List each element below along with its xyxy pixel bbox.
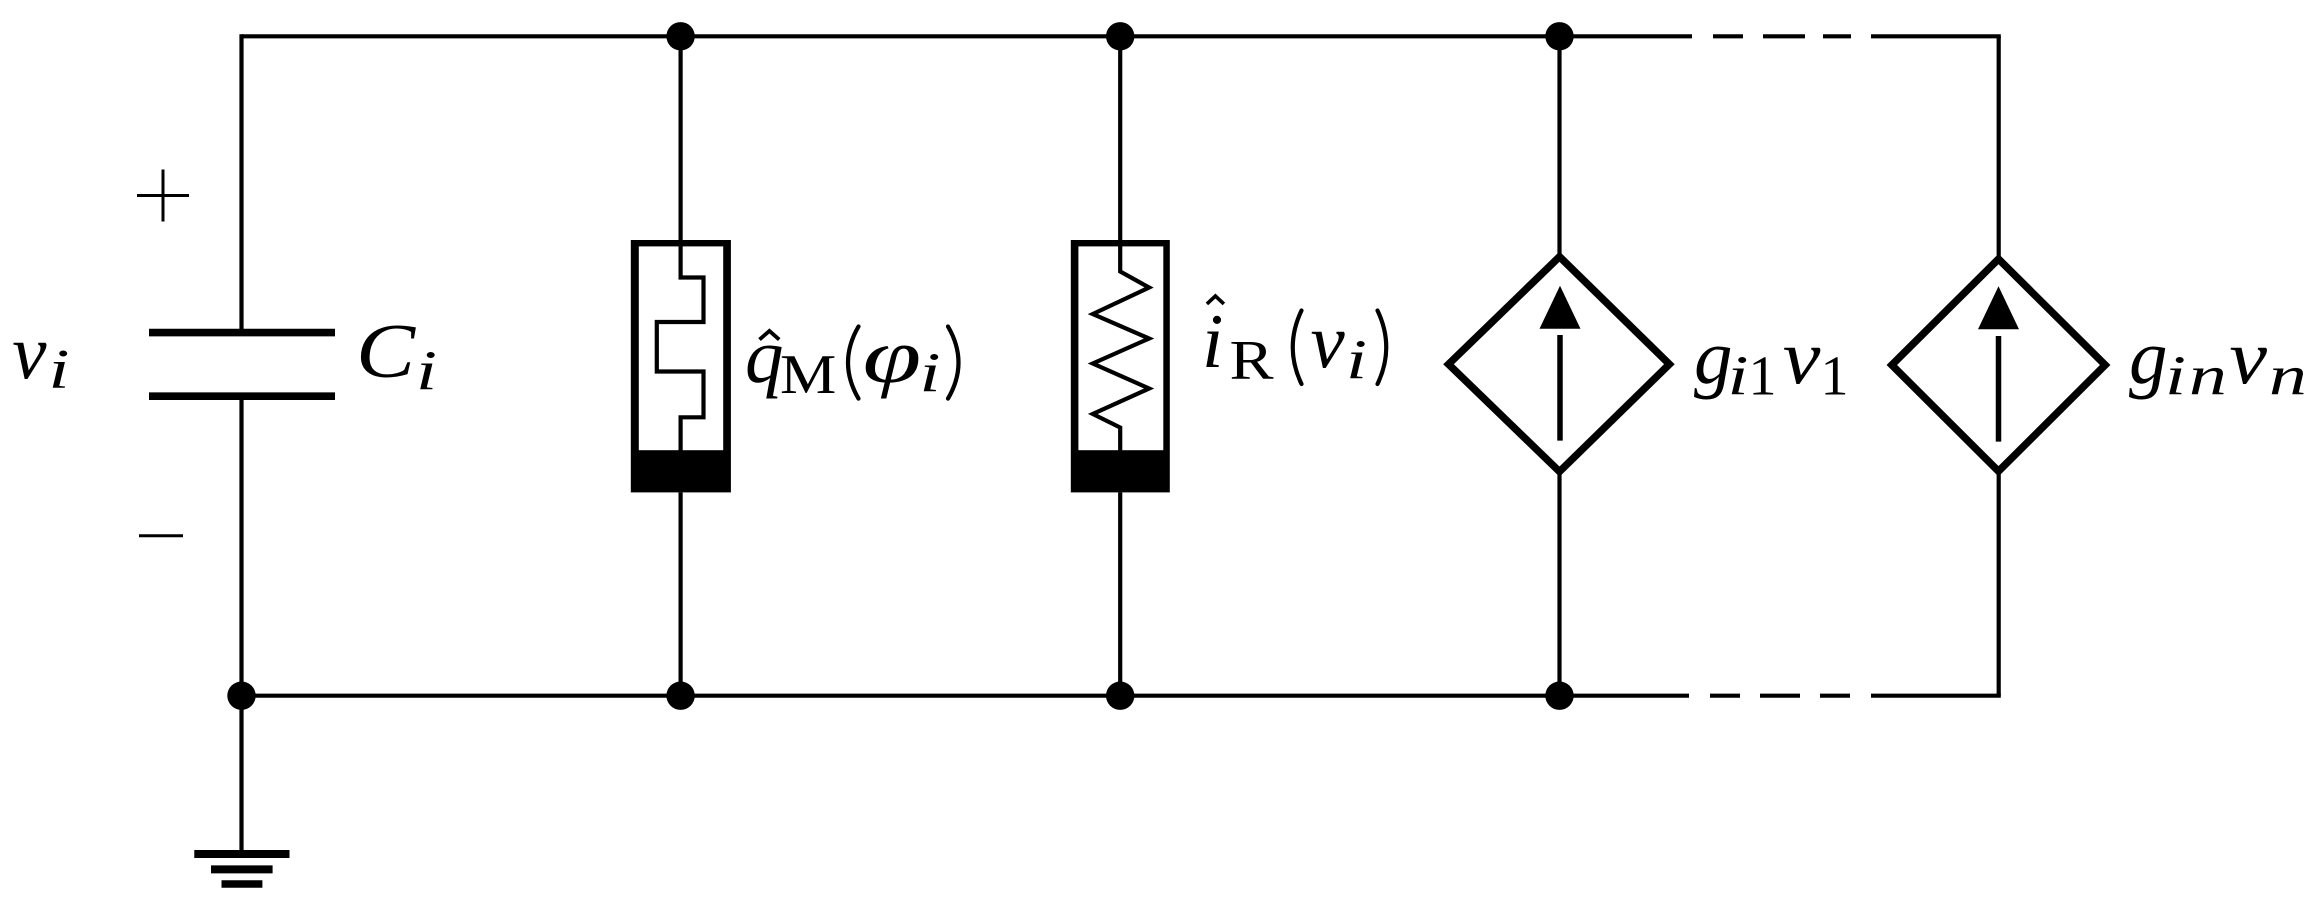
svg-text:v: v — [1311, 298, 1346, 384]
wire resistor branch upper — [1118, 36, 1122, 244]
wire resistor branch lower — [1118, 492, 1122, 695]
svg-text:n: n — [2189, 346, 2227, 407]
wire top rail dashed part — [1713, 34, 1851, 38]
current source gi1v1 arrow — [1557, 335, 1563, 441]
svg-text:i: i — [49, 339, 70, 400]
capacitor Ci top plate — [149, 329, 335, 337]
svg-text:n: n — [2269, 346, 2307, 407]
wire source n branch upper — [1997, 36, 2001, 262]
svg-text:C: C — [356, 308, 417, 393]
wire left branch lower (capacitor to bottom rail) — [239, 398, 243, 696]
current source ginvn diamond — [1892, 259, 2105, 471]
current source ginvn arrow — [1996, 336, 2002, 442]
label plus sign — [137, 170, 189, 222]
svg-text:i: i — [1346, 329, 1367, 390]
node bottom junction 2 — [1106, 682, 1134, 710]
svg-text:i: i — [920, 343, 941, 404]
wire top rail solid left part — [242, 34, 1693, 38]
svg-text:R: R — [1230, 329, 1274, 391]
resistor iR body — [1071, 240, 1170, 492]
node bottom junction 1 — [666, 682, 694, 710]
memristor qM step curve — [657, 244, 704, 452]
wire source n branch lower — [1997, 471, 2001, 695]
node top junction 1 — [666, 22, 694, 50]
wire source1 branch lower — [1557, 472, 1561, 696]
svg-text:v: v — [12, 309, 47, 395]
wire bottom rail solid left part — [242, 694, 1690, 698]
svg-text:1: 1 — [1749, 346, 1777, 408]
wire memristor branch upper — [678, 36, 682, 244]
wire memristor branch lower — [678, 492, 682, 695]
svg-text:φ: φ — [863, 314, 922, 399]
svg-text:1: 1 — [1821, 346, 1849, 408]
node top junction 3 — [1545, 22, 1573, 50]
node bottom junction 3 — [1545, 682, 1573, 710]
svg-text:v: v — [2229, 315, 2267, 401]
svg-text:q: q — [745, 313, 784, 399]
node top junction 2 — [1106, 22, 1134, 50]
ground — [194, 854, 289, 884]
svg-text:M: M — [780, 343, 836, 405]
node bottom junction 0 — [227, 682, 255, 710]
wire top rail solid right part — [1871, 34, 2001, 38]
capacitor Ci bottom plate — [149, 392, 335, 400]
wire ground stem — [239, 696, 243, 854]
svg-text:i: i — [1202, 298, 1223, 384]
svg-text:i: i — [416, 341, 437, 402]
resistor iR zigzag — [1093, 244, 1149, 452]
wire bottom rail solid right part — [1871, 694, 2001, 698]
svg-text:v: v — [1783, 315, 1821, 401]
wire left branch upper (top rail to capacitor) — [239, 34, 243, 330]
current source gi1v1 diamond — [1449, 257, 1670, 472]
svg-text:i: i — [1728, 346, 1749, 407]
svg-text:g: g — [2129, 314, 2168, 400]
svg-text:i: i — [2165, 346, 2186, 407]
wire bottom rail dashed part — [1710, 694, 1850, 698]
label minus sign — [139, 534, 183, 537]
memristor qM body — [631, 240, 731, 492]
wire source1 branch upper — [1557, 36, 1561, 260]
